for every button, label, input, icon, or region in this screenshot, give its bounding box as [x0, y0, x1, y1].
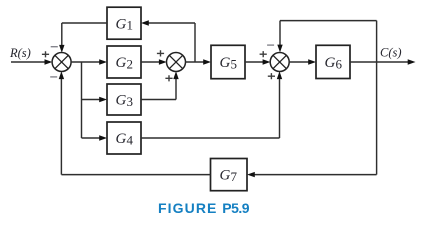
node C(s) output label	[380, 46, 402, 60]
svg-text:P5.9: P5.9	[222, 200, 250, 216]
svg-text:G: G	[116, 55, 127, 71]
wire branch to block G4	[82, 135, 108, 140]
block G1	[107, 7, 141, 39]
svg-text:7: 7	[231, 169, 238, 184]
block G7	[211, 159, 248, 191]
sign plus at S3 bottom input	[268, 73, 275, 79]
svg-text:6: 6	[336, 56, 343, 71]
node R(s) input label	[9, 46, 31, 60]
svg-text:G: G	[220, 168, 231, 184]
summing junction S1	[52, 53, 71, 72]
wire G3 output to S2 bottom	[141, 71, 179, 99]
wire branch vertical to G3 and G4	[81, 62, 83, 138]
wire pickoff feedback to S3 top	[277, 21, 376, 62]
summing junction S2	[167, 53, 186, 72]
svg-text:FIGURE: FIGURE	[158, 200, 218, 216]
block G3	[107, 84, 141, 115]
block G6	[316, 45, 350, 78]
caption FIGURE P5.9	[158, 200, 250, 216]
sign plus at S2 bottom input	[165, 75, 172, 81]
svg-text:G: G	[325, 55, 336, 71]
wire G6 output to C(s) with pickoff node	[350, 59, 416, 64]
svg-text:G: G	[220, 55, 231, 71]
wire pickoff to G1 input	[141, 20, 195, 62]
wire G4 output to S3 bottom	[141, 71, 282, 138]
svg-text:3: 3	[127, 94, 134, 109]
wire G1 output to S1 top	[59, 23, 107, 53]
wire S2 output to block G5 with pickoff to G1	[185, 59, 211, 64]
svg-text:2: 2	[127, 56, 134, 71]
sign plus at S2 left input	[157, 50, 164, 56]
wire S3 output to block G6	[289, 59, 316, 64]
svg-text:C(s): C(s)	[380, 46, 402, 60]
sign minus at S1 top input	[51, 46, 58, 48]
wire G5 output to summing junction S3	[245, 59, 270, 64]
svg-text:G: G	[116, 16, 127, 32]
svg-text:5: 5	[231, 56, 238, 71]
sign minus at S3 top input	[267, 44, 274, 46]
wire S1 output to block G2 with branch node	[71, 59, 107, 64]
block G4	[107, 122, 141, 154]
wire branch to block G3	[82, 97, 108, 102]
sign minus at S1 bottom input	[50, 76, 57, 78]
svg-text:4: 4	[127, 132, 134, 147]
sign plus at S3 left input	[260, 51, 267, 57]
block G5	[211, 45, 245, 78]
svg-text:R(s): R(s)	[9, 46, 31, 60]
sign plus at S1 left input	[42, 51, 49, 57]
svg-text:G: G	[116, 93, 127, 109]
svg-text:G: G	[116, 131, 127, 147]
wire G2 output to summing junction S2	[141, 59, 167, 64]
wire R(s) to summing junction S1	[11, 59, 52, 64]
svg-text:1: 1	[127, 18, 134, 33]
wire G7 output to S1 bottom	[59, 71, 211, 174]
block G2	[107, 46, 141, 78]
summing junction S3	[270, 53, 289, 72]
wire pickoff feedback down to block G7	[247, 62, 377, 177]
